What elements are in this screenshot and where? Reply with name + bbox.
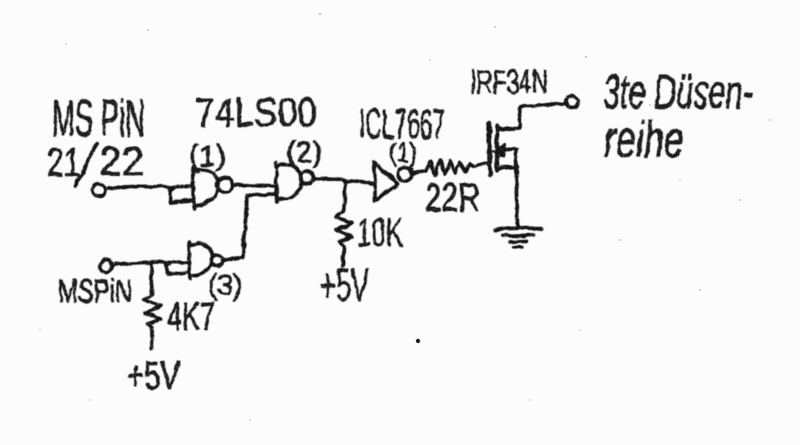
svg-text:(1): (1) (189, 140, 226, 173)
MOSFET Q1 arrow head (493, 144, 505, 157)
svg-text:+5V: +5V (320, 259, 369, 311)
wire junction to resistor R-10K (343, 181, 345, 212)
label 21/22 slash (75, 143, 97, 186)
wire R3 to MOSFET gate (474, 163, 489, 166)
wire input-tie loop at gate U1C (166, 263, 188, 274)
MOSFET Q1 source tap (497, 167, 517, 168)
node IN1 (MS PIN 21/22 input terminal) (93, 184, 105, 196)
wire R2 to +5V (343, 247, 344, 266)
resistor R2 10K (zigzag) (336, 212, 352, 247)
MOSFET Q1 gate bar (489, 123, 490, 175)
resistor R3 22R (horizontal zigzag) (426, 160, 474, 175)
driver U2 ICL7667 (triangle) (374, 162, 398, 201)
svg-text:21: 21 (47, 141, 80, 185)
node IN2 (MSPIN input terminal) (100, 260, 112, 272)
svg-text:22R: 22R (425, 176, 480, 220)
output node OUT (3te Duesenreihe) (566, 96, 578, 108)
wire input-tie loop at gate U1A (170, 188, 191, 202)
resistor R1 4K7 (zigzag) (144, 294, 161, 327)
MOSFET Q1 channel bar (495, 125, 499, 170)
MOSFET Q1 source wire down to ground (516, 150, 517, 228)
bubble of U1B (301, 172, 314, 185)
svg-text:reihe: reihe (604, 111, 684, 169)
wire from IN2 to gate U1C (112, 262, 189, 265)
bubble of U1A (218, 178, 233, 193)
bubble of U1C (212, 256, 223, 267)
ground symbol (495, 228, 541, 230)
svg-text:MSPiN: MSPiN (58, 273, 132, 309)
svg-text:(1): (1) (389, 138, 417, 168)
svg-text:22: 22 (99, 140, 144, 184)
svg-text:10K: 10K (357, 211, 403, 255)
svg-text:74LS00: 74LS00 (195, 91, 317, 135)
NAND gate U1A (74LS00 gate 1) (193, 167, 194, 209)
wire U1B output to driver U2 input (313, 178, 373, 183)
wire U1A output to U1B input (233, 185, 276, 186)
wire R1 to +5V (150, 327, 154, 349)
wire from IN1 to gate U1A input (105, 186, 192, 189)
wire U1C output up to U1B lower input (222, 194, 276, 261)
NAND gate U1B (74LS00 gate 2) (276, 163, 277, 202)
wire U2 output to R3 22R (412, 171, 426, 174)
NAND gate U1C (74LS00 gate 3) (189, 242, 190, 279)
bubble of U2 (398, 167, 412, 181)
svg-text:+5V: +5V (127, 354, 180, 398)
MOSFET Q1 drain wire to output node (497, 104, 566, 129)
svg-text:IRF34N: IRF34N (470, 64, 548, 100)
svg-text:4K7: 4K7 (167, 295, 215, 339)
wire junction to resistor R1 4K7 (151, 264, 152, 294)
svg-text:(2): (2) (286, 136, 322, 169)
MOSFET Q1 body tap with arrow (497, 149, 516, 150)
